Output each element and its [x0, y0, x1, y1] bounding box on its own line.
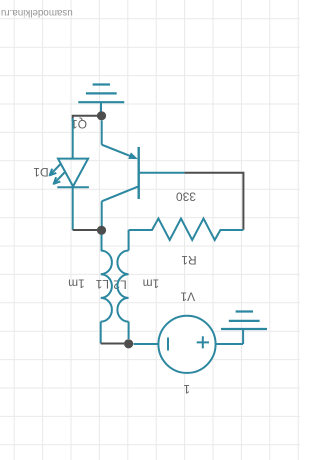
svg-text:1: 1	[183, 382, 190, 396]
transistor arrow head	[128, 152, 138, 159]
wire (gray) base to right rail	[185, 173, 244, 230]
wire (gray) node A to LED anode	[73, 116, 102, 120]
inductor L2 (right winding)	[117, 230, 128, 339]
base bar	[137, 147, 139, 199]
wire (gray) L1 bottom to node C	[101, 343, 124, 345]
svg-text:D1: D1	[33, 165, 49, 179]
svg-text:1m: 1m	[68, 277, 85, 291]
voltage source V1 (circle)	[158, 316, 243, 373]
minus terminal mark	[167, 338, 169, 351]
svg-text:R1: R1	[181, 253, 197, 267]
node A junction dot (top)	[97, 111, 106, 120]
svg-text:usamodelkina.ru: usamodelkina.ru	[1, 7, 73, 18]
base lead	[139, 172, 185, 174]
wire node C to V1	[134, 343, 159, 345]
svg-text:1m: 1m	[143, 276, 160, 290]
svg-text:V1: V1	[180, 290, 195, 304]
wire (gray) LED cathode to node B	[73, 229, 97, 231]
collector diagonal with arrow into bar	[102, 145, 132, 157]
LED arrow heads	[50, 169, 57, 176]
right lead	[216, 343, 244, 345]
node C junction dot (bottom rail)	[124, 339, 133, 348]
ground GND right (rotated 180, at V1 +)	[221, 312, 267, 345]
node B junction dot (LED/Q1/L1)	[97, 226, 106, 235]
resistor R1 (zigzag)	[129, 219, 244, 241]
svg-text:330: 330	[176, 190, 196, 204]
emitter lead to node B	[101, 201, 103, 230]
inductor L1 (left winding)	[101, 235, 112, 344]
plus terminal mark	[197, 336, 209, 348]
transistor Q1 (NPN, rotated 180)	[102, 121, 185, 231]
LED D1	[51, 118, 89, 230]
collector lead from node A	[101, 121, 103, 145]
emitter diagonal	[102, 186, 139, 201]
ground GND top (rotated 180, at collector node)	[78, 85, 124, 116]
svg-text:L1: L1	[95, 277, 109, 291]
